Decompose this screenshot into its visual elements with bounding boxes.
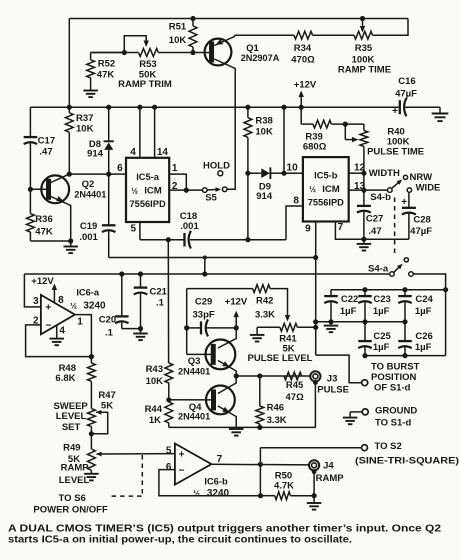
svg-text:1µF: 1µF — [373, 342, 390, 353]
resistor R34 470ohm — [294, 31, 313, 39]
pin1 output wire — [75, 315, 92, 357]
svg-text:IC6-b: IC6-b — [204, 477, 228, 487]
svg-text:1: 1 — [172, 163, 178, 174]
wire cap bank bottom rail — [365, 355, 446, 357]
svg-text:+: + — [179, 449, 185, 460]
svg-text:4: 4 — [59, 326, 65, 337]
svg-text:R36: R36 — [35, 214, 52, 225]
svg-text:R34: R34 — [294, 43, 312, 54]
Q3 collector wire — [218, 328, 236, 348]
svg-text:A DUAL CMOS TIMER’S (IC5) outp: A DUAL CMOS TIMER’S (IC5) output trigger… — [8, 524, 442, 535]
wire pin7 to C27/C28 bottoms — [335, 222, 409, 240]
svg-text:914: 914 — [256, 191, 273, 202]
capacitor C27 .47 — [357, 205, 371, 207]
svg-text:14: 14 — [157, 147, 169, 158]
resistor R50 4.7K — [275, 492, 291, 500]
pin 5 wire — [139, 222, 141, 240]
svg-text:R47: R47 — [98, 390, 115, 401]
potentiometer R47 5K sweep level set — [88, 409, 96, 427]
svg-text:R44: R44 — [145, 404, 163, 415]
wire pin3 riser from rail2 — [24, 274, 41, 307]
node C18 right / R38 column — [245, 237, 250, 242]
svg-text:C25: C25 — [373, 331, 391, 342]
ground below C22 — [330, 322, 332, 326]
wire rail2 y=274 to S4-a — [24, 273, 389, 275]
resistor R48 6.8K — [90, 357, 92, 363]
svg-text:ICM: ICM — [322, 184, 340, 195]
svg-text:2: 2 — [172, 181, 178, 192]
node rail pin14 riser — [152, 105, 157, 110]
resistor R36 47K — [27, 214, 35, 232]
resistor R45 47ohm — [284, 372, 302, 380]
wire top rail from +12V riser to R35 corner — [69, 18, 408, 20]
IC5-a timer box — [126, 158, 169, 222]
svg-text:7556IPD: 7556IPD — [130, 199, 166, 209]
svg-text:C29: C29 — [195, 297, 212, 308]
node R51 bottom / Q1 base — [190, 50, 195, 55]
svg-text:6: 6 — [166, 462, 172, 473]
node C27 bottom ground — [361, 237, 366, 242]
svg-text:2N4401: 2N4401 — [74, 190, 106, 200]
resistor R51 — [192, 19, 194, 27]
svg-text:.001: .001 — [180, 221, 199, 232]
svg-text:470Ω: 470Ω — [291, 55, 315, 66]
pin8 +12V arrow — [53, 289, 55, 303]
svg-text:R52: R52 — [98, 59, 115, 70]
svg-text:½: ½ — [193, 489, 200, 498]
svg-text:R42: R42 — [256, 296, 273, 307]
svg-text:PULSE TIME: PULSE TIME — [367, 146, 424, 157]
svg-text:S5: S5 — [205, 193, 217, 204]
ground below C20/C21 — [140, 329, 142, 334]
node pin13 — [361, 188, 366, 193]
ground below C27 — [363, 239, 365, 244]
Q3 base wire — [187, 353, 214, 355]
terminal TO S2 — [362, 445, 368, 451]
+12V arrow Q3 — [235, 316, 237, 328]
svg-text:IC5-b: IC5-b — [314, 171, 338, 181]
HOLD terminal — [218, 171, 223, 176]
wire +12V rail — [30, 106, 399, 108]
svg-text:C28: C28 — [413, 215, 430, 226]
svg-text:−: − — [45, 321, 51, 332]
svg-text:WIDTH: WIDTH — [369, 168, 400, 179]
svg-text:R51: R51 — [169, 22, 187, 33]
wire Q1 base line — [91, 52, 139, 54]
node R46 bottom — [257, 425, 262, 430]
Q2 emitter down to ground — [49, 196, 71, 242]
wire ground rail y=427.4 — [169, 426, 316, 428]
Q2 collector to pin6 node — [49, 174, 70, 183]
capacitor C16 47uF inline — [399, 100, 401, 114]
wire R35 to R34 segment — [313, 34, 355, 36]
capacitor C22 1uF — [330, 290, 332, 296]
svg-text:4: 4 — [130, 147, 136, 158]
svg-text:R46: R46 — [267, 403, 284, 414]
potentiometer R41 5K pulse level — [280, 323, 297, 331]
ground at S1-d terminal — [343, 417, 358, 419]
capacitor C20 .1 — [121, 274, 123, 316]
svg-text:C20: C20 — [99, 314, 116, 325]
node Q2 base — [28, 187, 33, 192]
svg-text:S4-b: S4-b — [370, 192, 391, 203]
svg-text:ICM: ICM — [144, 186, 162, 197]
svg-text:.001: .001 — [79, 232, 98, 243]
svg-text:914: 914 — [87, 148, 104, 159]
node C23 top — [362, 287, 367, 292]
wire pulse line y=376 — [236, 375, 310, 377]
transistor Q1 2N2907A — [205, 39, 232, 66]
svg-text:IC6-a: IC6-a — [76, 288, 100, 298]
wire cap bank mid rail — [316, 321, 405, 323]
svg-text:RAMP TRIM: RAMP TRIM — [118, 79, 172, 90]
svg-text:8: 8 — [58, 295, 64, 306]
svg-text:WIDE: WIDE — [416, 183, 441, 194]
wire cap bank right side — [445, 290, 447, 356]
node R47 bottom — [89, 431, 94, 436]
node pin9/rail1 — [313, 255, 318, 260]
svg-text:680Ω: 680Ω — [303, 142, 327, 153]
terminal GROUND TO S1-d — [362, 409, 368, 415]
capacitor C26 1uF — [404, 322, 406, 341]
svg-text:C22: C22 — [341, 294, 358, 305]
wire bottom of R36 to ground node — [30, 240, 70, 242]
wire C18 line y=239.7 — [140, 239, 185, 241]
svg-text:1µF: 1µF — [415, 342, 432, 353]
svg-text:J3: J3 — [327, 374, 338, 385]
ground right of C16 — [439, 107, 441, 113]
wire pin12 — [349, 172, 364, 174]
node rail pin4 riser — [137, 105, 142, 110]
node pin9 mid-rail — [313, 319, 318, 324]
Q2 base wire — [30, 188, 48, 190]
Q1 emitter to top — [214, 35, 234, 45]
node C21 top — [138, 271, 143, 276]
node pin12 — [361, 171, 366, 176]
+12V arrow top — [300, 96, 302, 107]
wire pin10 riser — [283, 107, 285, 173]
svg-text:C19: C19 — [80, 221, 97, 232]
svg-text:1µF: 1µF — [373, 306, 390, 317]
wire R38 column down to C18 line — [247, 173, 249, 240]
svg-text:OF S1-d: OF S1-d — [374, 383, 411, 394]
svg-text:47K: 47K — [35, 227, 53, 238]
svg-text:C27: C27 — [366, 214, 383, 225]
svg-text:6.8K: 6.8K — [55, 373, 75, 384]
wire R34 to Q1 emitter — [235, 34, 295, 36]
svg-text:47Ω: 47Ω — [286, 392, 305, 403]
transistor Q2 2N4401 — [41, 175, 69, 203]
node feedback — [258, 493, 263, 498]
ground below R52 — [83, 90, 98, 92]
node R46 top — [257, 373, 262, 378]
svg-text:+12V: +12V — [294, 80, 317, 91]
svg-text:.47: .47 — [39, 146, 52, 157]
capacitor C28 47uF — [408, 192, 410, 208]
potentiometer R40 100K PULSE TIME — [363, 124, 365, 130]
svg-text:POSITION: POSITION — [371, 372, 417, 383]
node C22 bottom — [328, 319, 333, 324]
svg-text:TO BURST: TO BURST — [371, 362, 420, 373]
wire R42 top line — [187, 288, 253, 290]
capacitor C18 .001 — [183, 233, 185, 247]
node C25 bottom — [362, 353, 367, 358]
svg-text:LEVEL: LEVEL — [56, 411, 87, 422]
svg-text:+: + — [45, 303, 51, 314]
svg-text:TO S6: TO S6 — [59, 493, 86, 504]
svg-text:8: 8 — [293, 196, 299, 207]
IC5-b timer box — [303, 157, 349, 221]
svg-text:.1: .1 — [105, 327, 114, 338]
pin 14 riser — [154, 107, 156, 158]
wire output column x=260.4 — [259, 448, 261, 496]
node C20 top — [119, 271, 124, 276]
pin 1 wire — [169, 174, 186, 190]
Q4 emitter wire — [218, 406, 236, 427]
dashed link S4-b to S4-a — [394, 198, 396, 257]
svg-text:POWER ON/OFF: POWER ON/OFF — [33, 505, 108, 516]
R49 wiper arrow to IC6-b pin5 — [96, 452, 102, 457]
svg-text:C23: C23 — [373, 294, 390, 305]
svg-text:R53: R53 — [139, 59, 156, 70]
pin 2 wire — [169, 189, 202, 191]
node pin1/pin2 — [184, 188, 189, 193]
Q4 base wire — [169, 399, 214, 401]
wire left riser x=69 from top rail to +12V rail — [68, 19, 70, 108]
svg-text:33pF: 33pF — [193, 310, 215, 321]
svg-text:10K: 10K — [169, 35, 187, 46]
node link bottom — [202, 271, 207, 276]
svg-text:7: 7 — [217, 454, 223, 465]
node C23 bottom — [362, 319, 367, 324]
Q1 collector down to S5 — [214, 59, 235, 189]
svg-text:6: 6 — [117, 163, 123, 174]
svg-text:HOLD: HOLD — [203, 161, 230, 172]
node C26 bottom — [402, 353, 407, 358]
node C29 left — [184, 325, 189, 330]
J4 stem — [312, 469, 317, 474]
ground below Q2 — [70, 241, 72, 247]
node rail x=108.7 (D8) — [106, 105, 111, 110]
capacitor C21 .1 — [140, 274, 142, 288]
svg-text:C21: C21 — [150, 286, 168, 297]
wire pin10 — [284, 172, 303, 174]
svg-text:10: 10 — [287, 163, 299, 174]
diode D9 914 — [248, 172, 261, 174]
svg-text:½: ½ — [131, 187, 138, 196]
svg-text:+12V: +12V — [225, 297, 248, 308]
potentiometer R49 5K ramp level — [88, 449, 96, 470]
node D8/C19 — [106, 172, 111, 177]
node rail pin10 riser — [281, 105, 286, 110]
resistor R52 47K — [91, 52, 125, 54]
node D9 cathode pin10 — [281, 171, 286, 176]
node D9 anode — [245, 171, 250, 176]
svg-text:LEVEL: LEVEL — [59, 475, 90, 486]
node top rail right — [443, 287, 448, 292]
wire to S2 terminal — [260, 447, 361, 449]
wire pin 8 jog — [286, 206, 303, 240]
svg-text:PULSE: PULSE — [317, 385, 349, 396]
wire pin6 line — [69, 173, 126, 175]
svg-text:R49: R49 — [63, 443, 80, 454]
resistor R38 10K — [247, 107, 249, 118]
svg-text:J4: J4 — [323, 461, 334, 472]
svg-text:47K: 47K — [97, 70, 115, 81]
node rail +12V arrow / R39 — [299, 105, 304, 110]
diode D8 914 — [108, 107, 110, 141]
capacitor C17 .47 — [24, 136, 38, 138]
wire rail1 y=257.5 — [109, 257, 316, 259]
svg-text:.47: .47 — [368, 226, 381, 237]
svg-text:½: ½ — [309, 185, 316, 194]
op-amp IC6-b triangle — [175, 444, 212, 485]
svg-text:47µF: 47µF — [410, 226, 432, 237]
wire C20/C21 join — [122, 328, 141, 330]
svg-text:+: + — [401, 197, 407, 208]
svg-text:3: 3 — [33, 296, 39, 307]
svg-text:R35: R35 — [355, 43, 373, 54]
svg-text:+12V: +12V — [31, 276, 54, 287]
svg-text:2N2907A: 2N2907A — [241, 53, 280, 63]
wire cap bank top rail — [331, 289, 446, 291]
svg-text:10K: 10K — [76, 124, 94, 135]
pin4 ground — [56, 325, 58, 339]
svg-text:.1: .1 — [156, 297, 165, 308]
wire pin9 column — [315, 222, 317, 356]
svg-text:3.3K: 3.3K — [267, 415, 287, 426]
svg-text:R43: R43 — [146, 364, 163, 375]
node C24 top — [402, 287, 407, 292]
node C24 bottom — [402, 319, 407, 324]
wire Q3 base column — [186, 289, 188, 355]
svg-text:NRW: NRW — [410, 172, 433, 183]
svg-text:7556IPD: 7556IPD — [308, 198, 344, 208]
potentiometer R35 100K RAMP TIME — [354, 31, 373, 39]
ground below Q4 — [229, 428, 244, 430]
svg-text:RAMP: RAMP — [61, 463, 90, 474]
wire right corner down to R34/R35 line — [373, 19, 409, 36]
svg-text:Q2: Q2 — [82, 179, 95, 190]
svg-text:C26: C26 — [415, 331, 432, 342]
R47 wiper bracket — [96, 410, 102, 415]
wire jog to burst terminal — [316, 355, 362, 383]
svg-text:TO S1-d: TO S1-d — [375, 418, 411, 429]
switch S5 — [203, 188, 208, 193]
svg-text:R38: R38 — [255, 116, 272, 127]
node R40 wiper tap — [343, 122, 348, 127]
resistor R39 680ohm — [300, 107, 302, 124]
svg-text:5K: 5K — [101, 401, 113, 412]
capacitor C19 .001 — [108, 174, 110, 225]
terminal TO BURST POSITION OF S1-d — [362, 380, 368, 386]
pin2 feedback loop — [26, 325, 92, 357]
dashed link to S6 — [141, 455, 143, 496]
svg-text:RAMP: RAMP — [316, 473, 345, 484]
svg-text:7: 7 — [338, 222, 344, 233]
svg-text:4.7K: 4.7K — [274, 481, 294, 492]
svg-text:1: 1 — [77, 317, 83, 328]
wire left column top — [29, 107, 31, 137]
node C21 ground — [138, 326, 143, 331]
svg-text:1µF: 1µF — [415, 306, 432, 317]
Q3 emitter wire — [218, 361, 236, 377]
resistor R37 10K — [68, 107, 70, 113]
ground below R49 — [84, 473, 99, 475]
capacitor C25 1uF — [364, 322, 366, 341]
R53 wiper bracket — [124, 36, 146, 53]
svg-text:R45: R45 — [286, 380, 304, 391]
ground left of R41 — [256, 327, 258, 335]
svg-text:C16: C16 — [398, 76, 415, 87]
svg-text:2N4401: 2N4401 — [178, 367, 210, 377]
pin7 output wire to J4 — [211, 463, 309, 466]
svg-text:½: ½ — [70, 302, 77, 311]
svg-text:+: + — [392, 106, 398, 117]
wire S4-a to cap bank — [413, 274, 445, 290]
node link top — [203, 256, 207, 260]
svg-text:5: 5 — [166, 446, 172, 457]
svg-text:10K: 10K — [146, 376, 164, 387]
J3 sleeve stem — [313, 380, 318, 385]
svg-text:47µF: 47µF — [395, 89, 417, 100]
pin 4 riser — [139, 107, 141, 158]
node R53 left — [122, 50, 127, 55]
pin6 feedback loop — [159, 470, 261, 496]
svg-text:Q3: Q3 — [188, 356, 201, 367]
switch S4-b — [388, 188, 393, 193]
capacitor C24 1uF — [404, 290, 406, 296]
resistor R42 3.3K — [253, 285, 270, 293]
svg-text:RAMP TIME: RAMP TIME — [338, 65, 391, 76]
svg-text:R37: R37 — [76, 113, 93, 124]
svg-text:3.3K: 3.3K — [255, 309, 275, 320]
svg-text:PULSE LEVEL: PULSE LEVEL — [248, 353, 313, 364]
svg-text:−: − — [179, 465, 185, 476]
svg-text:1µF: 1µF — [340, 306, 357, 317]
svg-text:(SINE-TRI-SQUARE): (SINE-TRI-SQUARE) — [355, 456, 459, 467]
transistor Q3 2N4401 — [206, 340, 236, 370]
svg-text:starts IC5-a on initial power-: starts IC5-a on initial power-up, the ci… — [8, 535, 352, 546]
svg-text:SET: SET — [62, 422, 81, 433]
node pin6/collector — [67, 172, 72, 177]
potentiometer R53 50K RAMP TRIM — [139, 49, 159, 57]
svg-text:S4-a: S4-a — [368, 264, 389, 275]
resistor R44 1K — [165, 402, 173, 423]
op-amp IC6-a triangle — [41, 295, 75, 334]
jack J3 PULSE — [310, 371, 320, 381]
svg-text:3240: 3240 — [83, 301, 106, 312]
wire threshold column x=168.8 — [167, 240, 169, 363]
ground below J4 — [313, 496, 315, 503]
node rail R38 — [245, 105, 250, 110]
node output — [258, 462, 263, 467]
svg-text:9: 9 — [305, 224, 311, 235]
svg-text:5: 5 — [131, 223, 137, 234]
svg-text:10K: 10K — [255, 127, 273, 138]
R40 wiper arrow — [344, 124, 346, 140]
svg-text:GROUND: GROUND — [375, 406, 417, 417]
node rail x=69 — [67, 105, 72, 110]
jack J4 RAMP — [309, 460, 319, 470]
S4-a upper throw contact — [404, 258, 408, 262]
node C29 right / Q3 collector — [234, 325, 239, 330]
svg-text:2N4401: 2N4401 — [178, 411, 210, 421]
capacitor C29 33pF — [187, 327, 201, 329]
resistor R46 3.3K — [259, 376, 261, 406]
svg-text:C17: C17 — [38, 136, 55, 147]
capacitor C23 1uF — [364, 290, 366, 296]
